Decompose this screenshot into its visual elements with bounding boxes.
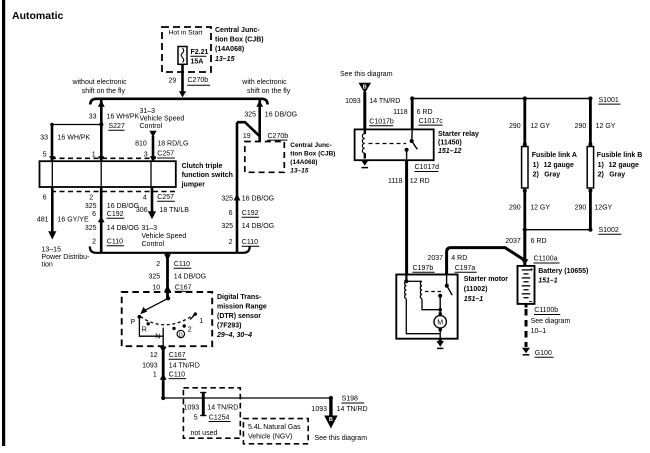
svg-text:13–15: 13–15: [215, 56, 235, 63]
svg-text:jumper: jumper: [181, 182, 206, 189]
svg-text:Control: Control: [142, 241, 165, 248]
svg-text:Starter relay: Starter relay: [438, 131, 479, 138]
svg-text:Central Junc-: Central Junc-: [290, 142, 332, 149]
svg-text:R: R: [142, 327, 147, 334]
svg-text:C1100b: C1100b: [534, 307, 558, 314]
svg-text:C110: C110: [169, 371, 185, 378]
svg-text:M: M: [437, 320, 443, 327]
svg-text:810: 810: [135, 141, 147, 148]
svg-text:2: 2: [156, 261, 160, 268]
svg-text:325: 325: [244, 111, 256, 118]
svg-text:290: 290: [509, 123, 521, 130]
svg-text:See this diagram: See this diagram: [340, 71, 393, 78]
svg-text:C270b: C270b: [268, 133, 289, 140]
svg-text:1093: 1093: [142, 362, 158, 369]
svg-text:16 DB/OG: 16 DB/OG: [242, 195, 274, 202]
svg-text:18 TN/LB: 18 TN/LB: [160, 207, 190, 214]
svg-text:18 RD/LG: 18 RD/LG: [157, 141, 188, 148]
svg-text:2): 2): [533, 171, 539, 178]
svg-text:290: 290: [509, 204, 521, 211]
svg-text:325: 325: [85, 225, 97, 232]
svg-text:1093: 1093: [184, 404, 200, 411]
svg-text:16 DB/OG: 16 DB/OG: [107, 203, 139, 210]
svg-text:2: 2: [229, 239, 233, 246]
svg-text:325: 325: [221, 223, 233, 230]
svg-text:(11002): (11002): [464, 286, 488, 293]
svg-text:151–1: 151–1: [464, 296, 484, 303]
svg-text:13–15: 13–15: [42, 247, 62, 254]
svg-text:6: 6: [43, 194, 47, 201]
svg-text:Hot in Start: Hot in Start: [169, 29, 203, 36]
svg-text:12 RD: 12 RD: [410, 178, 430, 185]
svg-text:14 TN/RD: 14 TN/RD: [169, 362, 200, 369]
svg-text:306: 306: [136, 207, 148, 214]
svg-text:C110: C110: [174, 261, 190, 268]
svg-text:Starter motor: Starter motor: [464, 276, 509, 283]
svg-text:tion Box (CJB): tion Box (CJB): [290, 151, 335, 158]
svg-text:31–3: 31–3: [142, 225, 158, 232]
svg-text:Vehicle Speed: Vehicle Speed: [142, 233, 187, 240]
svg-text:10–1: 10–1: [531, 328, 547, 335]
svg-text:tion: tion: [42, 262, 53, 269]
svg-text:C1100a: C1100a: [534, 256, 558, 263]
svg-text:(7F293): (7F293): [217, 323, 242, 330]
svg-text:C197b: C197b: [413, 265, 434, 272]
svg-text:not used: not used: [191, 430, 218, 437]
svg-text:(11450): (11450): [438, 140, 462, 147]
svg-text:1093: 1093: [345, 98, 361, 105]
svg-text:See this diagram: See this diagram: [315, 435, 368, 442]
svg-text:13–15: 13–15: [290, 167, 308, 174]
svg-text:151–1: 151–1: [538, 278, 558, 285]
svg-text:5.4L Natural Gas: 5.4L Natural Gas: [248, 424, 301, 431]
svg-text:G100: G100: [535, 350, 552, 357]
svg-text:16 DB/OG: 16 DB/OG: [265, 111, 297, 118]
svg-text:Central Junc-: Central Junc-: [215, 27, 260, 34]
svg-text:C192: C192: [107, 211, 124, 218]
svg-text:325: 325: [149, 274, 161, 281]
svg-text:3: 3: [144, 151, 148, 158]
svg-text:S227: S227: [109, 123, 125, 130]
svg-text:2: 2: [188, 327, 192, 334]
svg-text:mission Range: mission Range: [217, 304, 267, 311]
svg-text:31–3: 31–3: [140, 108, 156, 115]
svg-text:6: 6: [229, 210, 233, 217]
svg-text:(DTR) sensor: (DTR) sensor: [217, 313, 261, 320]
svg-text:F2.21: F2.21: [191, 49, 209, 56]
svg-text:1: 1: [153, 371, 157, 378]
svg-text:C167: C167: [175, 284, 192, 291]
svg-text:12GY: 12GY: [594, 204, 612, 211]
svg-text:15A: 15A: [191, 58, 204, 65]
svg-text:1: 1: [199, 318, 203, 325]
svg-text:Clutch triple: Clutch triple: [182, 163, 223, 170]
svg-text:290: 290: [575, 123, 587, 130]
svg-text:S1002: S1002: [599, 227, 619, 234]
svg-text:12 gauge: 12 gauge: [609, 162, 639, 169]
svg-text:2037: 2037: [427, 255, 443, 262]
svg-text:N: N: [155, 333, 160, 340]
svg-text:P: P: [131, 319, 136, 326]
svg-text:1): 1): [533, 162, 539, 169]
svg-text:481: 481: [37, 217, 49, 224]
svg-text:14 TN/RD: 14 TN/RD: [207, 404, 238, 411]
svg-text:29–4, 30–4: 29–4, 30–4: [216, 332, 252, 339]
svg-text:10: 10: [152, 284, 160, 291]
svg-text:12 GY: 12 GY: [530, 204, 550, 211]
svg-text:function switch: function switch: [182, 172, 233, 179]
svg-text:Fusible link B: Fusible link B: [597, 152, 643, 159]
svg-text:1): 1): [598, 162, 604, 169]
svg-text:1: 1: [92, 151, 96, 158]
svg-text:tion Box (CJB): tion Box (CJB): [215, 36, 264, 43]
svg-text:29: 29: [169, 78, 177, 85]
svg-text:14 DB/OG: 14 DB/OG: [107, 225, 139, 232]
svg-text:See diagram: See diagram: [531, 318, 571, 325]
svg-text:C1017b: C1017b: [369, 118, 394, 125]
svg-text:C1017d: C1017d: [415, 164, 440, 171]
svg-text:12 GY: 12 GY: [530, 123, 550, 130]
svg-text:(14A068): (14A068): [215, 46, 244, 53]
svg-text:14 TN/RD: 14 TN/RD: [369, 98, 400, 105]
svg-text:C167: C167: [169, 352, 186, 359]
svg-text:16 WH/PK: 16 WH/PK: [58, 135, 91, 142]
svg-text:C1254: C1254: [209, 414, 230, 421]
svg-text:Digital Trans-: Digital Trans-: [217, 294, 262, 301]
svg-text:5: 5: [194, 414, 198, 421]
svg-text:12 GY: 12 GY: [596, 123, 616, 130]
svg-text:shift on the fly: shift on the fly: [247, 88, 291, 95]
svg-text:5: 5: [43, 151, 47, 158]
svg-text:19: 19: [243, 133, 251, 140]
svg-text:S198: S198: [342, 396, 358, 403]
svg-text:Fusible link A: Fusible link A: [532, 152, 577, 159]
svg-text:without electronic: without electronic: [72, 79, 128, 86]
svg-text:16 WH/PK: 16 WH/PK: [107, 114, 140, 121]
svg-text:33: 33: [89, 114, 97, 121]
svg-text:C110: C110: [107, 239, 123, 246]
svg-text:B: B: [363, 85, 367, 91]
svg-text:14 TN/RD: 14 TN/RD: [337, 406, 368, 413]
svg-text:6: 6: [92, 211, 96, 218]
svg-text:(14A068): (14A068): [290, 159, 317, 166]
svg-text:shift on the fly: shift on the fly: [82, 88, 126, 95]
svg-text:Automatic: Automatic: [12, 10, 63, 22]
svg-text:Gray: Gray: [544, 171, 560, 178]
svg-text:Vehicle Speed: Vehicle Speed: [140, 115, 185, 122]
svg-text:with electronic: with electronic: [241, 79, 287, 86]
svg-text:1118: 1118: [393, 109, 408, 116]
svg-text:B: B: [329, 417, 333, 423]
svg-text:Vehicle (NGV): Vehicle (NGV): [248, 434, 292, 441]
svg-text:4: 4: [143, 194, 147, 201]
svg-text:1093: 1093: [311, 406, 327, 413]
svg-text:C270b: C270b: [188, 77, 209, 84]
svg-text:Power Distribu-: Power Distribu-: [42, 254, 91, 261]
svg-text:Gray: Gray: [609, 171, 625, 178]
svg-text:33: 33: [40, 135, 48, 142]
svg-text:S1001: S1001: [599, 97, 619, 104]
svg-text:Control: Control: [140, 123, 163, 130]
svg-text:D: D: [179, 332, 183, 338]
svg-text:14 DB/OG: 14 DB/OG: [242, 223, 274, 230]
svg-text:2: 2: [92, 239, 96, 246]
svg-text:325: 325: [85, 203, 97, 210]
svg-text:325: 325: [221, 195, 233, 202]
svg-text:4 RD: 4 RD: [451, 255, 467, 262]
svg-text:C257: C257: [157, 194, 174, 201]
svg-text:6 RD: 6 RD: [531, 238, 547, 245]
svg-text:6 RD: 6 RD: [417, 109, 433, 116]
svg-text:2): 2): [598, 171, 604, 178]
svg-text:C110: C110: [242, 239, 258, 246]
svg-text:2: 2: [89, 194, 93, 201]
svg-text:14 DB/OG: 14 DB/OG: [174, 274, 206, 281]
svg-text:C257: C257: [157, 151, 174, 158]
svg-text:12: 12: [150, 352, 158, 359]
svg-text:C1017c: C1017c: [419, 118, 444, 125]
svg-text:C197a: C197a: [455, 265, 476, 272]
svg-text:2037: 2037: [505, 238, 521, 245]
svg-text:151–12: 151–12: [438, 148, 461, 155]
svg-text:12 gauge: 12 gauge: [544, 162, 574, 169]
svg-text:16 GY/YE: 16 GY/YE: [58, 217, 89, 224]
svg-text:Battery (10655): Battery (10655): [538, 268, 588, 275]
svg-text:290: 290: [575, 204, 587, 211]
svg-text:C192: C192: [242, 210, 259, 217]
svg-text:1118: 1118: [388, 178, 403, 185]
